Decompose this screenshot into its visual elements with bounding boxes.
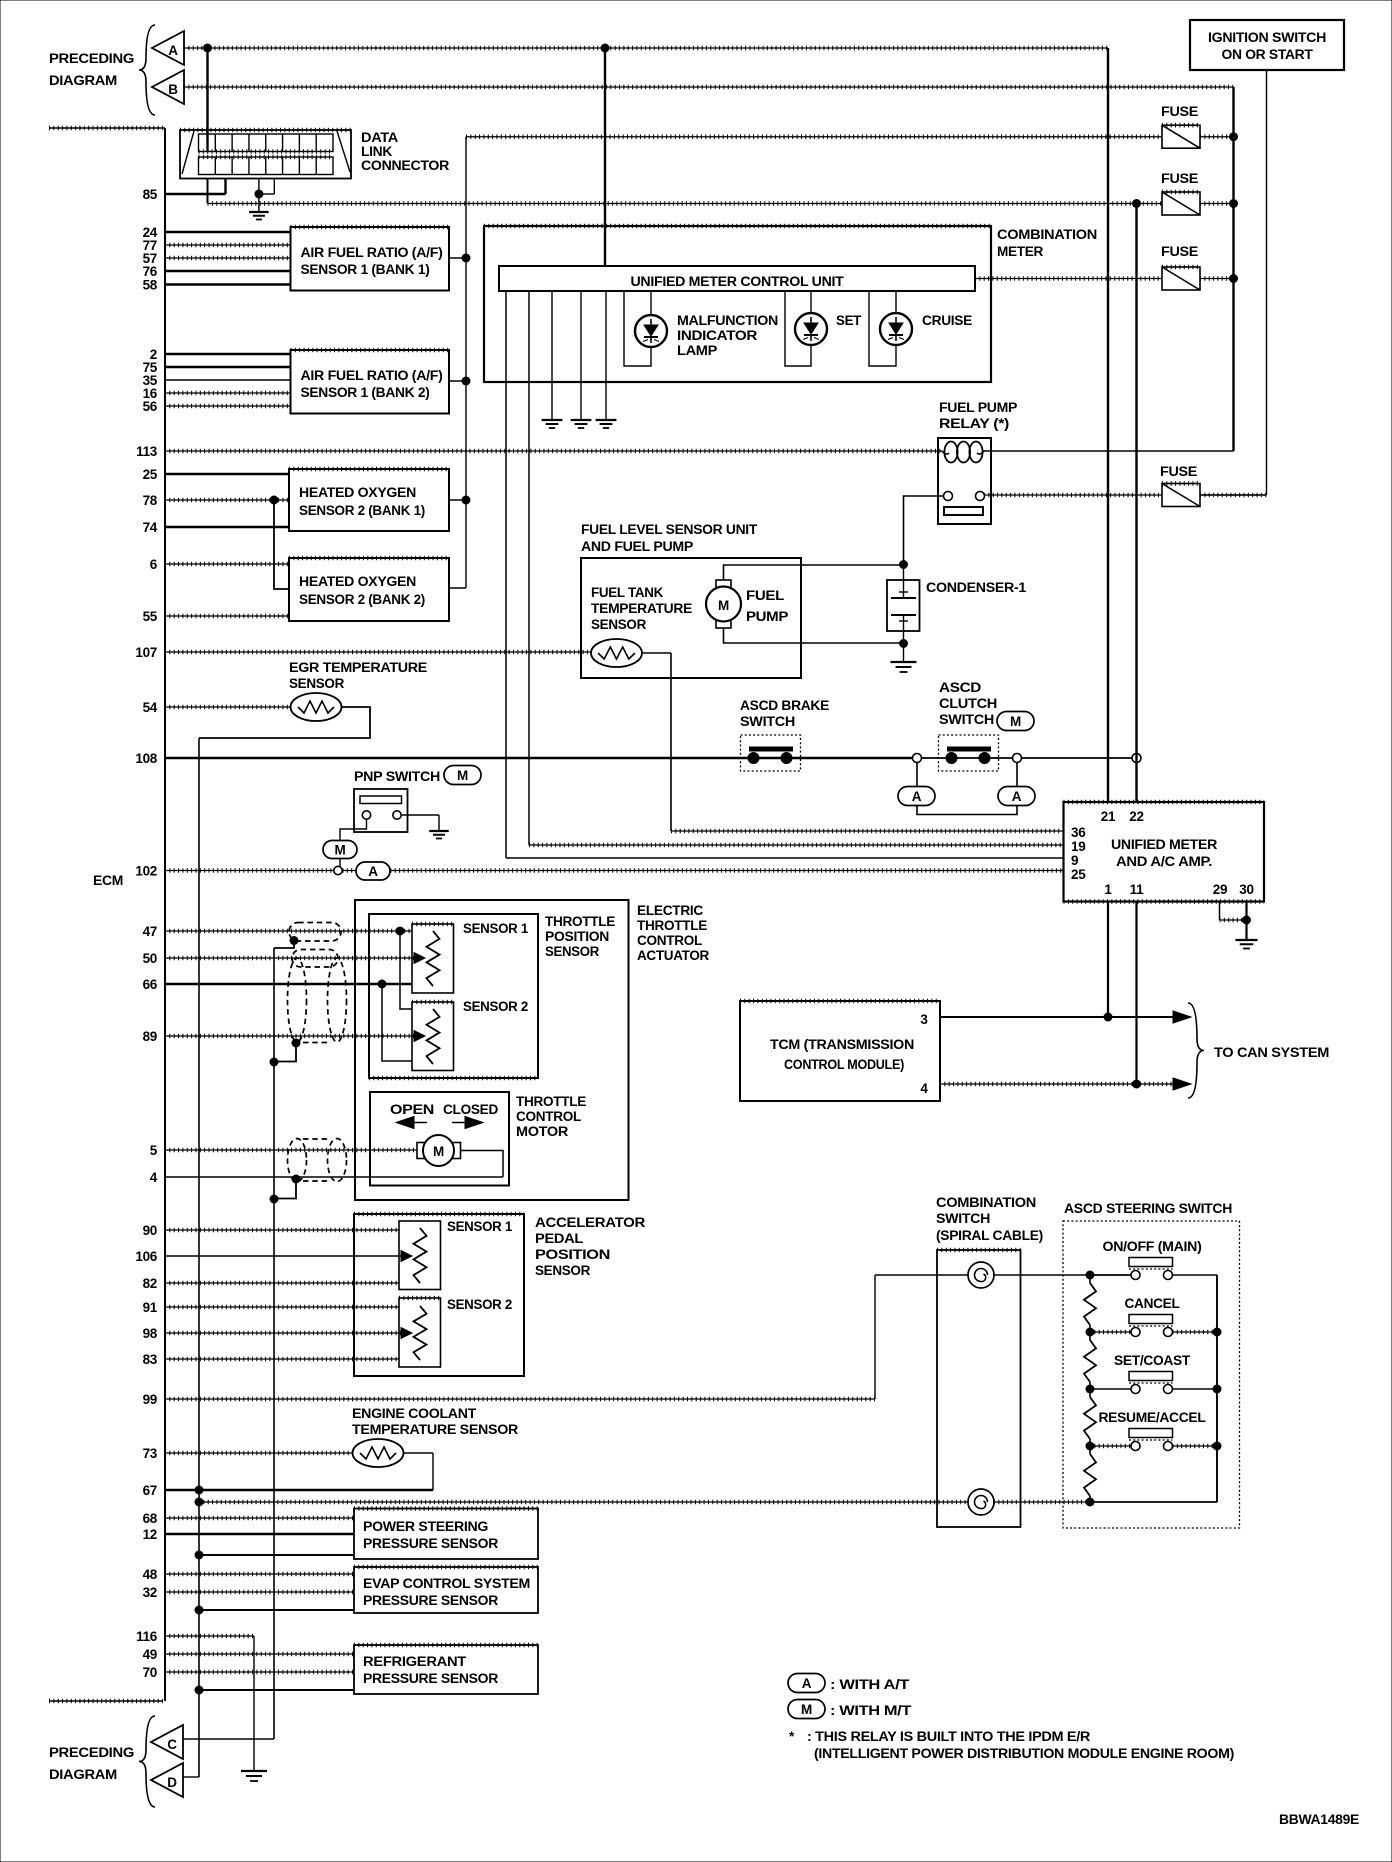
wire amp pin 11 to CAN: [1135, 902, 1137, 1085]
shield pair (pins 5/4): [288, 1139, 347, 1182]
svg-text:ON OR START: ON OR START: [1222, 47, 1314, 62]
wire pin 75: [165, 366, 291, 368]
wire pin 55: [165, 615, 289, 617]
svg-text:98: 98: [143, 1326, 158, 1341]
tps sensor 2: [412, 1002, 454, 1071]
wire clutch switch row: [921, 757, 1132, 759]
svg-text:55: 55: [143, 609, 158, 624]
svg-text:32: 32: [143, 1585, 157, 1600]
svg-text:89: 89: [143, 1029, 157, 1044]
spiral cable bottom: [968, 1489, 994, 1515]
svg-text:CLUTCH: CLUTCH: [939, 696, 997, 711]
svg-text:RESUME/ACCEL: RESUME/ACCEL: [1099, 1410, 1206, 1425]
wire pin 91: [165, 1306, 399, 1308]
ascd clutch switch label: [939, 680, 997, 727]
wire sub harness bottom: [195, 1498, 968, 1506]
svg-text:CONTROL: CONTROL: [637, 933, 702, 948]
svg-text:TEMPERATURE: TEMPERATURE: [591, 601, 692, 616]
svg-text:78: 78: [143, 493, 158, 508]
svg-text:73: 73: [143, 1446, 158, 1461]
closed arrow: [452, 1117, 483, 1129]
svg-text:SENSOR 2: SENSOR 2: [447, 1297, 512, 1312]
fuel level sensor unit box: [581, 558, 801, 678]
wire pin 32: [165, 1591, 354, 1593]
shield drain (5/4 pair): [270, 1175, 300, 1203]
svg-text:ENGINE COOLANT: ENGINE COOLANT: [352, 1406, 477, 1421]
svg-text:EVAP CONTROL SYSTEM: EVAP CONTROL SYSTEM: [363, 1576, 530, 1591]
svg-text:11: 11: [1130, 882, 1144, 897]
svg-text:PUMP: PUMP: [746, 609, 788, 624]
ECM pin numbers: [135, 187, 157, 1680]
svg-text:THROTTLE: THROTTLE: [637, 918, 707, 933]
wire HO2S bank2 heater: [449, 587, 466, 589]
svg-text:6: 6: [150, 557, 158, 572]
wire pin 102: [165, 870, 334, 872]
wire pin 47: [165, 927, 412, 935]
amp pin labels left: [1071, 825, 1086, 882]
svg-text:SWITCH: SWITCH: [936, 1211, 990, 1226]
svg-text:ASCD: ASCD: [939, 680, 982, 695]
pnp switch M pill: [444, 766, 481, 785]
svg-text:CONTROL: CONTROL: [516, 1109, 581, 1124]
ground (data link connector): [249, 194, 269, 220]
wire pin 50 wiper 1: [165, 953, 425, 964]
wire tps ground branch: [382, 984, 412, 1061]
svg-text:DATA: DATA: [361, 130, 399, 145]
tps sensor 1: [412, 924, 454, 993]
wire A drop to data link connector: [206, 48, 208, 140]
apps sensor 2: [399, 1298, 441, 1367]
fuse F4 label: [1160, 464, 1197, 479]
relay contacts: [944, 492, 985, 501]
svg-text:PNP SWITCH: PNP SWITCH: [354, 769, 440, 784]
svg-text:SWITCH: SWITCH: [740, 714, 795, 729]
egr temperature sensor: [291, 693, 342, 721]
spiral cable top: [968, 1262, 994, 1288]
svg-text:LAMP: LAMP: [677, 343, 717, 358]
svg-text:CLOSED: CLOSED: [443, 1102, 499, 1117]
svg-text:19: 19: [1071, 839, 1085, 854]
wire fuse 1 to sensor heaters: [462, 137, 470, 588]
svg-text:POWER STEERING: POWER STEERING: [363, 1519, 488, 1534]
svg-text:108: 108: [135, 751, 157, 766]
set indicator lamp: [785, 291, 827, 366]
wire power steering sensor return: [195, 1551, 354, 1559]
heated oxygen sensor 2 bank 1 box: [289, 469, 449, 531]
svg-text:AIR FUEL RATIO (A/F): AIR FUEL RATIO (A/F): [301, 245, 443, 260]
svg-text:PRECEDING: PRECEDING: [49, 51, 134, 66]
throttle position sensor box: [369, 914, 538, 1078]
wire pin 76: [165, 270, 291, 272]
svg-text:SENSOR: SENSOR: [545, 944, 600, 959]
apps sensor 2 label: [447, 1297, 512, 1312]
svg-text:68: 68: [143, 1511, 158, 1526]
wire pin 56: [165, 405, 291, 407]
wire pin 106 wiper: [165, 1251, 412, 1262]
ascd steering switch label: [1064, 1201, 1232, 1216]
wire pin 4: [165, 1176, 503, 1178]
svg-text:67: 67: [143, 1483, 157, 1498]
shield (pin 50): [292, 950, 338, 968]
svg-text:SENSOR 2 (BANK 1): SENSOR 2 (BANK 1): [299, 503, 425, 518]
svg-text:CANCEL: CANCEL: [1125, 1296, 1180, 1311]
svg-text:58: 58: [143, 278, 158, 293]
wire pin 74: [165, 526, 289, 528]
svg-text:A: A: [912, 789, 922, 804]
to CAN system brace: [1188, 1003, 1204, 1098]
svg-text:ASCD STEERING SWITCH: ASCD STEERING SWITCH: [1064, 1201, 1232, 1216]
svg-text:EGR TEMPERATURE: EGR TEMPERATURE: [289, 660, 427, 675]
tcm box: [740, 1001, 940, 1101]
svg-text:BBWA1489E: BBWA1489E: [1279, 1812, 1359, 1827]
svg-text:TEMPERATURE SENSOR: TEMPERATURE SENSOR: [352, 1422, 519, 1437]
fuse F3 label: [1161, 244, 1198, 259]
figure number: [1279, 1812, 1359, 1827]
fuel tank temperature sensor: [591, 639, 642, 667]
engine coolant temperature sensor label: [352, 1406, 519, 1437]
wire pin 99 up to spiral cable: [875, 1275, 968, 1399]
wire pin 83: [165, 1358, 399, 1360]
svg-text:49: 49: [143, 1647, 157, 1662]
svg-text:THROTTLE: THROTTLE: [516, 1094, 586, 1109]
svg-text:SENSOR 1: SENSOR 1: [447, 1219, 513, 1234]
wire meter stub to amp pin 9: [506, 291, 1064, 858]
svg-text:A: A: [802, 1676, 812, 1691]
svg-text:CONDENSER-1: CONDENSER-1: [926, 580, 1027, 595]
svg-text:UNIFIED METER: UNIFIED METER: [1111, 837, 1218, 852]
data link connector: [180, 130, 351, 179]
wire C to shield ground bus: [183, 1738, 274, 1740]
wire A/F sensor bank2 heater: [449, 380, 466, 382]
wire pin 90: [165, 1229, 399, 1231]
ascd brake switch label: [740, 698, 829, 729]
wire fuse2 to amp pin 22: [1135, 204, 1137, 803]
svg-text:M: M: [718, 598, 729, 613]
svg-text:M: M: [457, 768, 468, 783]
connector arrow A: [152, 31, 184, 65]
unified meter and A/C amp label: [1111, 837, 1218, 869]
svg-text:(SPIRAL CABLE): (SPIRAL CABLE): [936, 1228, 1043, 1243]
wire pin 99: [165, 1398, 875, 1400]
svg-text:B: B: [168, 82, 178, 97]
svg-text:: WITH M/T: : WITH M/T: [830, 1703, 912, 1718]
apps sensor 1: [399, 1221, 441, 1290]
svg-text:THROTTLE: THROTTLE: [545, 914, 615, 929]
svg-text:5: 5: [150, 1143, 158, 1158]
preceding diagram label (top): [49, 51, 134, 88]
shield (pin 47): [289, 923, 341, 942]
open/closed labels: [390, 1102, 499, 1117]
svg-text:AND FUEL PUMP: AND FUEL PUMP: [581, 539, 693, 554]
svg-text:SET: SET: [836, 313, 862, 328]
svg-text:MOTOR: MOTOR: [516, 1124, 569, 1139]
wire A/F sensor bank1 heater: [449, 257, 466, 259]
svg-text:106: 106: [135, 1249, 157, 1264]
combination switch label: [936, 1195, 1043, 1243]
wire tcm pin 4 CAN-L: [940, 1078, 1191, 1090]
unified meter and A/C amp box: [1064, 802, 1265, 902]
svg-text:70: 70: [143, 1665, 157, 1680]
wire pin 89 wiper 2: [165, 1031, 425, 1042]
svg-text:PRESSURE SENSOR: PRESSURE SENSOR: [363, 1536, 499, 1551]
air fuel ratio sensor 1 bank 1 box: [291, 227, 450, 291]
svg-text:HEATED OXYGEN: HEATED OXYGEN: [299, 574, 416, 589]
wire pin 67: [165, 1486, 433, 1494]
unified meter control unit box: [499, 266, 975, 291]
svg-text:4: 4: [920, 1081, 928, 1096]
fuse F1: [466, 125, 1234, 148]
svg-text:3: 3: [920, 1012, 928, 1027]
fuel pump relay box: [938, 438, 991, 524]
svg-text:56: 56: [143, 399, 158, 414]
svg-text:ON/OFF (MAIN): ON/OFF (MAIN): [1103, 1239, 1202, 1254]
svg-text:OPEN: OPEN: [390, 1102, 434, 1117]
wire pin 107: [165, 651, 592, 653]
svg-text:A: A: [368, 864, 378, 879]
wire pin 108: [165, 757, 913, 759]
electric throttle control actuator box: [355, 900, 629, 1200]
apps sensor 1 label: [447, 1219, 513, 1234]
fuel level sensor unit label: [581, 522, 758, 554]
svg-text:ACCELERATOR: ACCELERATOR: [535, 1215, 646, 1230]
svg-text:(INTELLIGENT POWER DISTRIBUTIO: (INTELLIGENT POWER DISTRIBUTION MODULE E…: [814, 1746, 1234, 1761]
svg-text:M: M: [335, 843, 346, 858]
wire pin 57: [165, 257, 291, 259]
clutch bypass circles: [913, 754, 1022, 763]
wire pin 6: [165, 563, 289, 565]
ascd switch output bus: [1216, 1275, 1218, 1502]
svg-text:85: 85: [143, 187, 158, 202]
fuse F3: [975, 267, 1234, 290]
wire shared sensor ground branch: [274, 500, 289, 589]
wire amp pin 29-30 ground: [1220, 902, 1258, 949]
meter ground stub 1: [542, 291, 563, 428]
svg-text:AIR FUEL RATIO (A/F): AIR FUEL RATIO (A/F): [301, 368, 443, 383]
wire relay to condenser: [900, 496, 945, 569]
svg-text:TO CAN SYSTEM: TO CAN SYSTEM: [1214, 1045, 1329, 1060]
svg-text:FUEL TANK: FUEL TANK: [591, 585, 664, 600]
shield drain (pin 47 cable): [274, 937, 298, 949]
svg-text:SET/COAST: SET/COAST: [1114, 1353, 1191, 1368]
wire A/T bypass: [917, 763, 1017, 815]
power steering pressure sensor box: [354, 1509, 538, 1560]
ascd resistor chain: [1084, 1275, 1096, 1502]
wire pin 25: [165, 473, 289, 475]
svg-text:M: M: [433, 1144, 444, 1159]
svg-text:COMBINATION: COMBINATION: [997, 227, 1097, 242]
wire pin 85 to data link connector: [165, 179, 226, 195]
ECM connector bus: [49, 128, 165, 1701]
tcm pin 3 label: [920, 1012, 928, 1027]
egr temperature sensor label: [289, 660, 427, 691]
connector arrow B: [152, 70, 184, 104]
ECM label: [93, 873, 123, 888]
svg-text:MALFUNCTION: MALFUNCTION: [677, 313, 778, 328]
combination switch box: [937, 1250, 1021, 1527]
ignition switch box: [1190, 20, 1344, 70]
svg-text:SENSOR 1 (BANK 2): SENSOR 1 (BANK 2): [301, 385, 430, 400]
wire B feed: [184, 86, 1234, 88]
wire pnp pill to junction: [339, 859, 341, 867]
preceding diagram label (bottom): [49, 1745, 134, 1782]
svg-text:LINK: LINK: [361, 144, 393, 159]
wire meter stub to amp pin 19: [529, 291, 1064, 845]
svg-text:UNIFIED METER CONTROL UNIT: UNIFIED METER CONTROL UNIT: [631, 274, 845, 289]
svg-text:POSITION: POSITION: [535, 1247, 610, 1262]
svg-text:1: 1: [1104, 882, 1112, 897]
wire egr sensor return: [199, 707, 370, 738]
wire tcm pin 3 CAN-H: [940, 1011, 1191, 1023]
ascd SET/COAST switch: [1086, 1353, 1221, 1394]
svg-text:SWITCH: SWITCH: [939, 712, 994, 727]
svg-text:4: 4: [150, 1170, 158, 1185]
wire motor return: [461, 1151, 504, 1178]
wire pin 70: [165, 1671, 354, 1673]
wire refrigerant sensor return: [195, 1686, 354, 1694]
svg-text:SENSOR 1 (BANK 1): SENSOR 1 (BANK 1): [301, 262, 430, 277]
amp pin labels top: [1101, 809, 1144, 824]
svg-text:D: D: [167, 1775, 177, 1790]
wire pin 116 to ground: [165, 1636, 254, 1771]
shield drain (66/89 pair): [270, 1039, 300, 1066]
tps sensor 2 label: [463, 999, 528, 1014]
pnp junction circle: [334, 866, 342, 874]
svg-text:HEATED OXYGEN: HEATED OXYGEN: [299, 485, 416, 500]
combination meter label: [997, 227, 1097, 259]
svg-text:PEDAL: PEDAL: [535, 1231, 583, 1246]
svg-text:47: 47: [143, 924, 157, 939]
svg-text:C: C: [167, 1737, 177, 1752]
svg-text:A: A: [1012, 789, 1022, 804]
wire data link connector to fuse row: [208, 178, 1163, 208]
wire ect return: [404, 1453, 434, 1490]
connector arrow D: [151, 1763, 183, 1797]
ground (pin 116): [241, 1771, 267, 1781]
wire pin 2: [165, 353, 291, 355]
refrigerant pressure sensor box: [354, 1645, 538, 1694]
svg-text:METER: METER: [997, 244, 1044, 259]
wire pin 12: [165, 1533, 354, 1535]
malfunction indicator lamp label: [677, 313, 778, 358]
wire pin 113 + relay coil: [165, 442, 1234, 463]
svg-text:POSITION: POSITION: [545, 929, 609, 944]
svg-text:ECM: ECM: [93, 873, 123, 888]
to CAN system label: [1214, 1045, 1329, 1060]
brace (bottom preceding diagram): [139, 1716, 155, 1807]
meter ground stub 2: [571, 291, 592, 428]
svg-text:FUEL LEVEL SENSOR UNIT: FUEL LEVEL SENSOR UNIT: [581, 522, 758, 537]
fuse F4: [984, 484, 1267, 507]
legend M pill: [788, 1700, 912, 1719]
open arrow: [396, 1117, 427, 1129]
wire pin 78: [165, 496, 289, 504]
svg-text:107: 107: [135, 645, 157, 660]
svg-text:INDICATOR: INDICATOR: [677, 328, 758, 343]
pin 108 junction circle: [1132, 754, 1141, 763]
tps sensor 1 label: [463, 921, 529, 936]
wire evap sensor return: [195, 1606, 354, 1614]
svg-text:A: A: [168, 43, 178, 58]
svg-text:25: 25: [143, 467, 158, 482]
wire spiral bottom to resistor: [994, 1498, 1217, 1506]
shield ground bus: [273, 948, 275, 1739]
svg-text:36: 36: [1071, 825, 1086, 840]
svg-text:CONNECTOR: CONNECTOR: [361, 158, 450, 173]
svg-text:PRESSURE SENSOR: PRESSURE SENSOR: [363, 1671, 499, 1686]
svg-text:CONTROL MODULE): CONTROL MODULE): [784, 1057, 904, 1072]
svg-text:COMBINATION: COMBINATION: [936, 1195, 1036, 1210]
wire D to sensor return bus: [183, 1776, 199, 1778]
legend relay note: [789, 1729, 1234, 1761]
svg-text:: THIS RELAY IS BUILT INTO THE: : THIS RELAY IS BUILT INTO THE IPDM E/R: [807, 1729, 1091, 1744]
data link connector label: [361, 130, 450, 173]
cruise label: [922, 313, 972, 328]
condenser-1 label: [926, 580, 1027, 595]
malfunction indicator lamp: [624, 291, 667, 366]
ascd clutch switch M pill: [997, 712, 1034, 731]
set label: [836, 313, 862, 328]
svg-text:REFRIGERANT: REFRIGERANT: [363, 1654, 467, 1669]
accelerator pedal position sensor label: [535, 1215, 646, 1278]
throttle motor: [417, 1135, 461, 1166]
condenser-1 capacitor: [891, 564, 916, 643]
wire pin 102 to unified meter amp pin 25: [343, 870, 1064, 872]
wire data link connector ground pins: [255, 179, 274, 199]
svg-text:22: 22: [1129, 809, 1143, 824]
wire pin 48: [165, 1573, 354, 1575]
wire B bus down fuse column: [1230, 87, 1238, 451]
wire pin 98 wiper: [165, 1328, 412, 1339]
wire pin 49: [165, 1653, 354, 1655]
wire tps supply branch: [400, 931, 412, 1009]
svg-text:DIAGRAM: DIAGRAM: [49, 1767, 117, 1782]
svg-text:54: 54: [143, 700, 158, 715]
svg-text:21: 21: [1101, 809, 1116, 824]
fuse F2 label: [1161, 171, 1198, 186]
electric throttle control actuator label: [637, 903, 710, 963]
ascd ON/OFF (MAIN) switch: [1090, 1239, 1217, 1280]
wire pin 54: [165, 706, 291, 708]
wire ignition switch down to fuse 4: [1201, 70, 1267, 495]
svg-text:PRESSURE SENSOR: PRESSURE SENSOR: [363, 1593, 499, 1608]
throttle control motor label: [516, 1094, 586, 1139]
ascd brake switch: [741, 735, 801, 771]
brace (top preceding diagram): [139, 25, 155, 115]
svg-text:25: 25: [1071, 867, 1086, 882]
ascd steering switch box: [1063, 1221, 1240, 1528]
svg-text:ACTUATOR: ACTUATOR: [637, 948, 710, 963]
tcm pin 4 label: [920, 1081, 928, 1096]
cruise indicator lamp: [869, 291, 912, 366]
wire pin 82: [165, 1282, 399, 1284]
svg-text:113: 113: [136, 444, 158, 459]
wire pin 24: [165, 231, 291, 233]
svg-text:82: 82: [143, 1276, 157, 1291]
M/T pill (pnp): [323, 841, 357, 859]
svg-text:9: 9: [1071, 853, 1078, 868]
svg-text:: WITH A/T: : WITH A/T: [830, 1677, 910, 1692]
fuse F1 label: [1161, 104, 1198, 119]
svg-text:M: M: [801, 1702, 812, 1717]
wire pin 16: [165, 392, 291, 394]
svg-text:SENSOR: SENSOR: [591, 617, 647, 632]
accelerator pedal position sensor box: [354, 1214, 524, 1376]
svg-text:83: 83: [143, 1352, 158, 1367]
svg-text:66: 66: [143, 977, 158, 992]
wire pnp to ground: [401, 815, 449, 839]
svg-text:48: 48: [143, 1567, 158, 1582]
wire B feed to unified meter control unit: [604, 48, 606, 266]
